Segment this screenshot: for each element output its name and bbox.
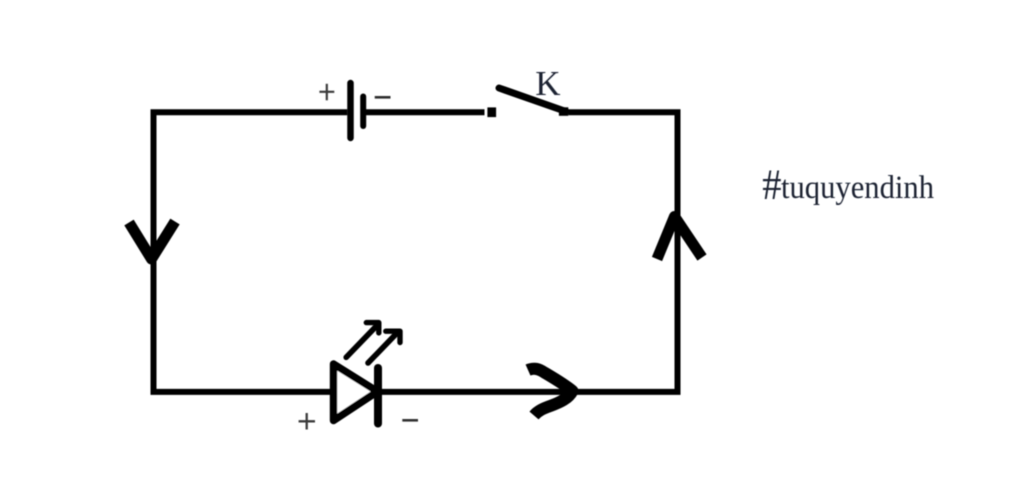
svg-text:tuquyendinh: tuquyendinh [781, 170, 934, 206]
svg-text:K: K [535, 64, 560, 103]
svg-text:#: # [762, 160, 781, 209]
